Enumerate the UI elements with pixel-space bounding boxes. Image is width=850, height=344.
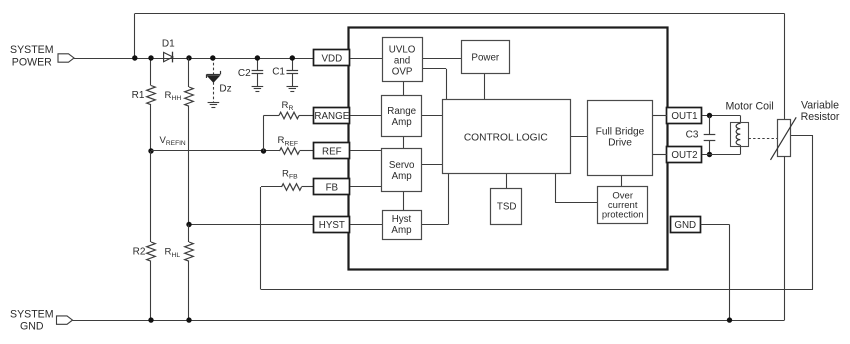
pin HYST — [314, 217, 350, 233]
pin FB — [314, 179, 350, 195]
svg-text:R2: R2 — [133, 247, 146, 258]
svg-text:VDD: VDD — [322, 53, 343, 64]
svg-text:Motor Coil: Motor Coil — [725, 101, 773, 113]
capacitor C1 — [272, 58, 298, 86]
svg-text:SYSTEM: SYSTEM — [10, 308, 54, 320]
svg-text:OUT1: OUT1 — [671, 111, 697, 122]
wire top feedback loop to variable resistor — [135, 14, 785, 120]
pin OUT1 — [667, 108, 702, 124]
svg-text:C3: C3 — [686, 130, 699, 141]
port SYSTEM GND — [10, 308, 72, 332]
junction C1 power — [290, 55, 295, 60]
wire VREFIN rail — [151, 150, 280, 152]
pin RANGE — [314, 108, 350, 124]
wire HYST rail — [189, 224, 314, 226]
svg-text:GND: GND — [674, 220, 696, 231]
block Range Amp — [382, 96, 422, 137]
svg-text:Amp: Amp — [392, 117, 413, 128]
svg-text:Range: Range — [387, 106, 416, 117]
capacitor C2 — [238, 58, 263, 86]
wire Full Bridge to OUT1 — [653, 115, 668, 117]
wire RANGE branch — [264, 116, 280, 152]
capacitor C3 — [686, 116, 716, 155]
ground of Dz — [208, 103, 220, 108]
wire UVLO to Power — [422, 58, 461, 60]
IC outline — [349, 28, 668, 270]
svg-text:R1: R1 — [132, 90, 145, 101]
svg-text:Hyst: Hyst — [392, 214, 412, 225]
wire Power to control logic — [484, 74, 486, 100]
svg-text:RANGE: RANGE — [314, 111, 349, 122]
resistor RHL — [165, 225, 194, 321]
svg-text:Variable: Variable — [801, 99, 839, 111]
junction R1 power — [148, 55, 153, 60]
node VREFIN — [148, 135, 186, 154]
wire FB feedback return — [261, 136, 814, 290]
pin GND — [671, 217, 701, 233]
block Power — [462, 41, 510, 74]
svg-text:TSD: TSD — [497, 202, 517, 213]
wire Range Amp to control logic — [422, 115, 442, 117]
junction power/top-loop — [132, 55, 137, 60]
svg-text:Drive: Drive — [608, 138, 632, 149]
block TSD — [491, 189, 522, 225]
wire HYST to Hyst Amp — [350, 224, 382, 226]
resistor RR — [279, 100, 314, 119]
ground of C2 — [252, 87, 264, 92]
svg-text:Amp: Amp — [391, 225, 412, 236]
svg-text:UVLO: UVLO — [389, 44, 416, 55]
wire OUT1 to motor coil — [702, 116, 741, 124]
block Over current protection — [598, 187, 648, 224]
diode D1 — [162, 39, 175, 63]
junction GND return / ground rail — [727, 317, 732, 322]
junction RHH/RHL HYST — [186, 222, 191, 227]
svg-text:OVP: OVP — [392, 66, 413, 77]
block Full Bridge Drive — [588, 101, 653, 176]
wire OUT2 to motor coil — [702, 145, 741, 155]
svg-text:Resistor: Resistor — [801, 111, 840, 123]
resistor RHH — [165, 58, 194, 225]
svg-text:and: and — [394, 55, 410, 66]
resistor R1 — [132, 58, 156, 151]
svg-text:protection: protection — [602, 209, 644, 220]
svg-text:C2: C2 — [238, 68, 251, 79]
svg-text:REF: REF — [322, 146, 342, 157]
svg-text:OUT2: OUT2 — [671, 150, 697, 161]
junction OUT2 C3 — [707, 152, 712, 157]
wire GND pin return — [701, 225, 730, 321]
resistor R2 — [133, 151, 156, 320]
variable resistor — [771, 99, 840, 159]
pin OUT2 — [667, 147, 702, 163]
block Servo Amp — [382, 149, 422, 192]
junction RHL ground — [186, 317, 191, 322]
port SYSTEM POWER — [10, 44, 74, 69]
wire Servo Amp to control logic — [422, 164, 442, 166]
svg-text:GND: GND — [20, 320, 44, 332]
wire Range Amp to Servo Amp — [403, 137, 405, 149]
block Hyst Amp — [383, 211, 422, 240]
svg-text:CONTROL LOGIC: CONTROL LOGIC — [464, 132, 548, 143]
wire Servo Amp to Hyst Amp — [403, 192, 405, 210]
wire bottom ground rail — [73, 320, 785, 322]
wire UVLO to control logic — [422, 69, 447, 100]
svg-text:D1: D1 — [162, 39, 175, 50]
motor coil — [725, 101, 773, 147]
junction R2 ground — [148, 317, 153, 322]
wire variable resistor to ground rail — [784, 156, 786, 320]
junction VREFIN branch — [261, 148, 266, 153]
svg-text:C1: C1 — [272, 67, 285, 78]
svg-text:Amp: Amp — [392, 171, 413, 182]
svg-text:Power: Power — [471, 52, 500, 63]
svg-text:Full Bridge: Full Bridge — [596, 127, 645, 138]
wire Hyst Amp to control logic — [421, 174, 449, 225]
wire control logic to over-current — [556, 174, 598, 203]
resistor RFB — [261, 168, 314, 190]
svg-text:HYST: HYST — [319, 220, 345, 231]
mechanical link (dashed) — [749, 138, 778, 140]
junction OUT1 C3 — [707, 113, 712, 118]
wire control logic to Full Bridge — [570, 136, 588, 138]
wire VDD to UVLO — [350, 58, 382, 60]
junction C2 power — [255, 55, 260, 60]
junction Dz power — [210, 55, 215, 60]
junction D1 cathode — [186, 55, 191, 60]
ground of C1 — [287, 87, 299, 92]
svg-text:POWER: POWER — [12, 57, 52, 69]
svg-text:SYSTEM: SYSTEM — [10, 44, 54, 56]
wire Full Bridge to over-current — [621, 175, 623, 187]
zener diode Dz (dashed, optional) — [207, 58, 232, 102]
pin REF — [314, 143, 350, 159]
resistor RREF — [278, 135, 314, 154]
svg-text:Servo: Servo — [389, 160, 415, 171]
svg-text:FB: FB — [326, 182, 339, 193]
wire FB to Servo Amp — [350, 186, 382, 188]
block CONTROL LOGIC — [443, 100, 571, 174]
wire REF to Servo Amp — [350, 150, 382, 152]
pin VDD — [314, 50, 350, 66]
wire Full Bridge to OUT2 — [653, 154, 668, 156]
wire RANGE to Range Amp — [350, 115, 382, 117]
wire control logic to TSD — [506, 174, 508, 189]
wire power rail — [74, 58, 314, 60]
wire UVLO to Range Amp — [403, 82, 405, 96]
svg-text:Dz: Dz — [219, 84, 231, 95]
block UVLO and OVP — [383, 38, 423, 82]
